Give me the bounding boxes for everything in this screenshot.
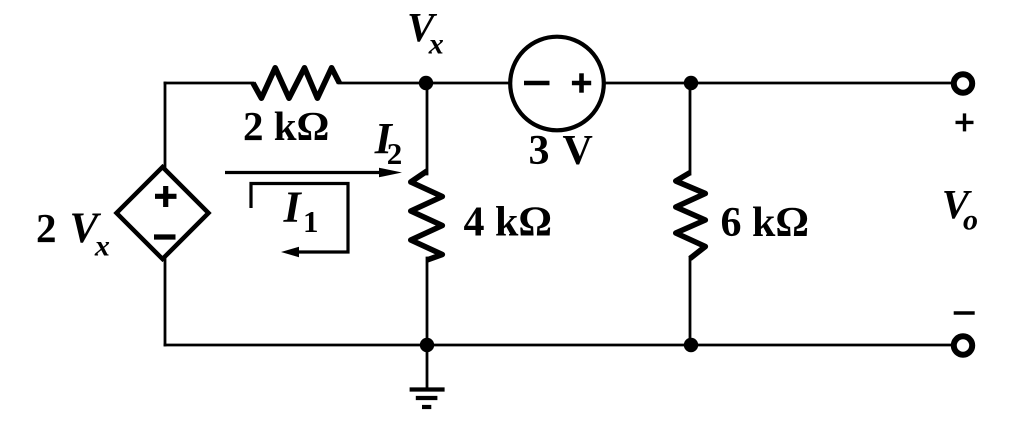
svg-text:2: 2 <box>36 205 57 251</box>
svg-text:x: x <box>94 230 110 263</box>
svg-text:6 kΩ: 6 kΩ <box>721 200 810 246</box>
svg-text:2: 2 <box>387 136 403 171</box>
svg-text:V: V <box>563 128 593 174</box>
svg-text:1: 1 <box>303 204 319 239</box>
svg-text:I: I <box>283 183 303 232</box>
svg-text:4 kΩ: 4 kΩ <box>464 200 553 246</box>
svg-text:3: 3 <box>529 128 550 174</box>
svg-text:x: x <box>428 28 444 61</box>
svg-text:2 kΩ: 2 kΩ <box>243 103 329 149</box>
svg-text:o: o <box>963 204 978 237</box>
